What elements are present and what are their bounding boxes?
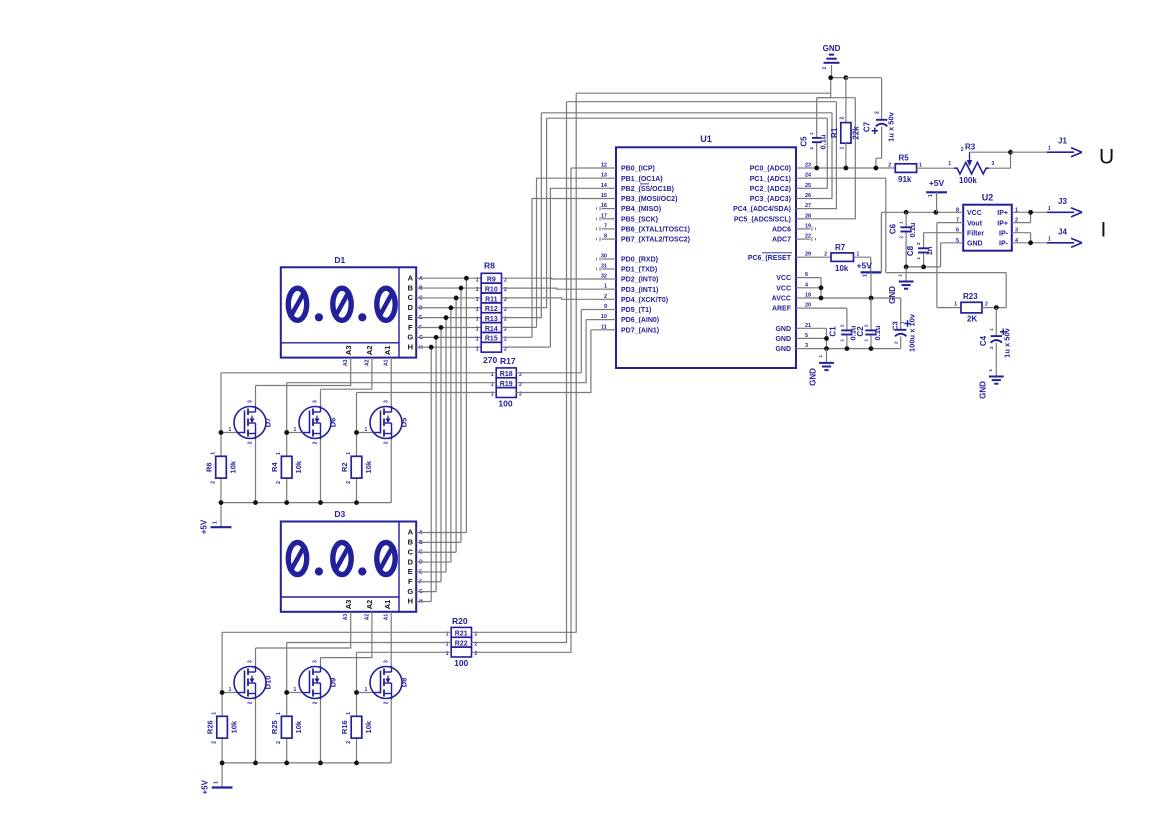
bus wires display columns A-H <box>465 278 467 532</box>
wire rowH to PB2 <box>502 188 609 347</box>
junction dot R23/C4 <box>994 305 999 310</box>
wire R21 to D10 gate <box>222 632 451 692</box>
svg-text:PD0_(RXD): PD0_(RXD) <box>621 257 658 264</box>
potentiometer R3 100k <box>954 162 989 174</box>
junction dots mini rail <box>904 265 909 270</box>
svg-text:R21: R21 <box>455 631 468 638</box>
svg-text:2: 2 <box>346 481 352 484</box>
wire D7 gate lead <box>221 432 238 434</box>
svg-text:1: 1 <box>1048 146 1051 152</box>
resistor R25 10k <box>281 716 292 738</box>
svg-text:A2: A2 <box>364 614 370 621</box>
wire to C7 <box>846 78 882 119</box>
wire R20-3 to D8 gate <box>357 652 452 692</box>
svg-text:R9: R9 <box>487 277 496 284</box>
svg-text:C4: C4 <box>979 335 988 346</box>
wire U2 IP+ pin1 <box>1012 211 1047 213</box>
svg-text:AREF: AREF <box>772 306 792 313</box>
svg-text:B: B <box>408 283 414 292</box>
svg-text:GND: GND <box>775 346 791 353</box>
svg-text:VCC: VCC <box>776 285 791 292</box>
svg-text:3: 3 <box>248 400 254 403</box>
svg-text:3: 3 <box>248 660 254 663</box>
svg-text:ADC7: ADC7 <box>772 237 791 244</box>
wire rowB to PD3 <box>502 288 609 289</box>
svg-text:G: G <box>407 587 413 596</box>
wire R17-3 to D5 gate <box>357 393 497 433</box>
svg-text:1: 1 <box>948 161 951 167</box>
svg-text:2: 2 <box>313 701 319 704</box>
wire GND stem <box>831 65 833 78</box>
svg-text:B: B <box>408 538 414 547</box>
display D3 (0.0.0 seven-segment) <box>281 522 416 612</box>
svg-text:R10: R10 <box>485 286 498 293</box>
wire R16 column <box>356 693 358 763</box>
wire GND mini rail <box>906 266 941 268</box>
wire +5V to U2 <box>936 192 938 212</box>
svg-text:A3: A3 <box>343 614 349 621</box>
wire R3 wiper to J1 <box>970 151 1011 153</box>
wire +5V stem <box>220 503 222 528</box>
wires D3 segment rows A-H <box>416 532 466 534</box>
svg-text:R16: R16 <box>340 720 349 734</box>
junction dots U2 VCC row <box>904 210 909 215</box>
resistor network R17 (R18,R19, 100) <box>496 368 516 378</box>
svg-text:R23: R23 <box>963 292 978 301</box>
wire D6 drain <box>320 439 322 503</box>
svg-text:PB3_(MOSI/OC2): PB3_(MOSI/OC2) <box>621 196 677 203</box>
svg-text:1: 1 <box>476 297 479 303</box>
svg-text:J1: J1 <box>1058 137 1067 146</box>
svg-text:1: 1 <box>476 287 479 293</box>
svg-text:PB2_(SS/OC1B): PB2_(SS/OC1B) <box>621 186 674 193</box>
wire +5V to AVCC rail <box>870 272 872 298</box>
junction dots GND row <box>828 75 833 80</box>
svg-text:1: 1 <box>476 277 479 283</box>
wire GND drop <box>830 78 832 98</box>
svg-text:2: 2 <box>961 147 964 153</box>
wire PD6 to R19 <box>516 320 608 383</box>
wire GND pins rail <box>804 328 901 348</box>
svg-text:1: 1 <box>928 194 934 197</box>
svg-text:VCC: VCC <box>967 210 982 217</box>
wire C2 top <box>870 298 872 330</box>
svg-text:PC3_(ADC3): PC3_(ADC3) <box>750 196 791 203</box>
svg-text:3: 3 <box>992 161 995 167</box>
svg-text:1: 1 <box>276 452 282 455</box>
svg-text:10k: 10k <box>294 460 303 473</box>
wire GND stem U2 <box>905 267 907 281</box>
connector J1 <box>1047 151 1074 153</box>
svg-text:10k: 10k <box>294 720 303 733</box>
svg-text:IP+: IP+ <box>997 220 1008 227</box>
wire GND stem U1 <box>826 349 828 363</box>
svg-text:R2: R2 <box>340 462 349 472</box>
svg-text:1: 1 <box>211 452 217 455</box>
svg-text:C3: C3 <box>890 321 899 331</box>
svg-text:F: F <box>408 323 413 332</box>
wire PC4 top bus <box>567 102 837 209</box>
wire GND row <box>831 77 846 79</box>
svg-text:R5: R5 <box>899 154 910 163</box>
wire R22 to D9 gate <box>287 643 452 693</box>
wire to C5 <box>817 98 831 138</box>
transistor D10 <box>234 667 266 699</box>
svg-text:1: 1 <box>863 274 869 277</box>
svg-text:1: 1 <box>276 712 282 715</box>
wire R1 bottom <box>845 143 847 168</box>
wire A3 to D7 <box>256 358 351 407</box>
resistor network R8 (R9-R15, 270) <box>481 273 501 283</box>
U1 pin stubs <box>608 167 616 169</box>
svg-text:1: 1 <box>840 147 846 150</box>
svg-text:PD2_(INT0): PD2_(INT0) <box>621 277 658 284</box>
wire A2 to D6 <box>321 358 372 407</box>
transistor D9 <box>299 667 331 699</box>
connector J4 <box>1047 242 1074 244</box>
wire C6 top <box>905 212 907 226</box>
svg-text:1u x 50v: 1u x 50v <box>887 111 896 141</box>
svg-text:D: D <box>408 557 414 566</box>
svg-text:2: 2 <box>985 302 988 308</box>
svg-text:R4: R4 <box>270 462 279 472</box>
junction dots D1 rows <box>464 276 469 281</box>
svg-text:100: 100 <box>498 399 512 409</box>
svg-text:PD5_(T1): PD5_(T1) <box>621 307 651 314</box>
junction dots VCC rail <box>819 285 824 290</box>
wire U2 IP- pin3 <box>1012 233 1031 243</box>
svg-text:IP+: IP+ <box>997 210 1008 217</box>
wire D7 drain <box>255 439 257 503</box>
svg-text:1: 1 <box>346 712 352 715</box>
junction dots PC0 net <box>814 166 819 171</box>
svg-text:1: 1 <box>1048 236 1051 242</box>
wire VCC pin6 <box>804 278 821 298</box>
wire rowE riser <box>502 113 542 318</box>
svg-text:1n: 1n <box>925 246 934 255</box>
wire PD5 to R18 <box>516 310 608 373</box>
transistor D6 <box>299 407 331 439</box>
svg-text:Filter: Filter <box>967 231 984 238</box>
svg-text:3: 3 <box>384 400 390 403</box>
capacitor C1 0.1u <box>841 329 852 331</box>
wire R5 to R3 <box>917 167 955 169</box>
wire Filter row <box>924 233 964 248</box>
wire R26 column <box>221 693 223 763</box>
svg-text:2: 2 <box>874 111 880 114</box>
svg-text:1: 1 <box>822 67 828 70</box>
junction dot J1 net <box>1008 150 1013 155</box>
wire PC3 top bus rowE <box>541 113 832 199</box>
wire D8 gate lead <box>357 692 374 694</box>
svg-text:1: 1 <box>365 427 368 433</box>
svg-text:A3: A3 <box>343 359 349 366</box>
svg-text:C7: C7 <box>863 121 872 132</box>
wire rowF to PB1 <box>502 178 609 327</box>
svg-text:C1: C1 <box>829 326 838 337</box>
svg-text:R20: R20 <box>452 616 468 626</box>
wire rowC to PD4 <box>502 298 609 299</box>
+5V supply top-left <box>211 526 232 528</box>
svg-text:PB6_(XTAL1/TOSC1): PB6_(XTAL1/TOSC1) <box>621 227 690 234</box>
svg-text:R7: R7 <box>835 243 846 252</box>
junction dots rail top <box>219 500 224 505</box>
svg-text:R15: R15 <box>485 336 498 343</box>
svg-text:2: 2 <box>824 252 827 258</box>
svg-text:AVCC: AVCC <box>772 296 791 303</box>
junction dots gates bottom <box>220 690 225 695</box>
capacitor C3 100u x 10v <box>895 329 906 331</box>
wire PC6 to R7 <box>804 256 831 258</box>
svg-text:R3: R3 <box>965 143 976 152</box>
wires D1 segment rows A-H <box>416 277 481 279</box>
wire R18 to D7 gate <box>221 373 496 433</box>
svg-text:D3: D3 <box>334 509 345 519</box>
svg-text:A3: A3 <box>344 346 353 356</box>
svg-text:R14: R14 <box>485 326 498 333</box>
capacitor C7 1u x 50v <box>876 119 887 121</box>
svg-text:1: 1 <box>213 521 219 524</box>
svg-text:J3: J3 <box>1058 197 1067 206</box>
svg-text:PC1_(ADC1): PC1_(ADC1) <box>750 176 791 183</box>
svg-text:R11: R11 <box>485 296 498 303</box>
svg-text:R12: R12 <box>485 306 498 313</box>
svg-text:3: 3 <box>384 660 390 663</box>
wire D9 drain <box>320 699 322 763</box>
svg-text:A1: A1 <box>384 359 390 366</box>
svg-text:A2: A2 <box>364 359 370 366</box>
svg-text:PC6_(RESET: PC6_(RESET <box>748 255 792 262</box>
svg-text:1: 1 <box>365 687 368 693</box>
wire AREF to C1 <box>804 308 847 330</box>
junction dot J4 <box>1028 240 1033 245</box>
svg-text:3: 3 <box>313 660 319 663</box>
wire R3 pin3 up <box>989 152 1011 168</box>
wire pin28 riser <box>804 98 855 219</box>
svg-text:1: 1 <box>476 327 479 333</box>
svg-text:IP-: IP- <box>999 241 1009 248</box>
wire PC5 top bus <box>576 92 831 94</box>
wire C8 bottom <box>923 253 925 267</box>
svg-text:R8: R8 <box>484 261 495 271</box>
wire PC1 net <box>804 178 1006 307</box>
svg-text:PC5_(ADC5/SCL): PC5_(ADC5/SCL) <box>734 216 791 223</box>
wire A1 to D8 <box>390 612 392 667</box>
svg-text:C5: C5 <box>800 136 809 147</box>
svg-text:E: E <box>408 567 413 576</box>
resistor R1 22k <box>841 123 851 144</box>
wire C3 bottom <box>900 337 902 349</box>
transistor D5 <box>370 407 402 439</box>
svg-text:2: 2 <box>888 163 891 169</box>
svg-text:PB1_(OC1A): PB1_(OC1A) <box>621 176 663 183</box>
svg-text:R22: R22 <box>455 641 468 648</box>
wire PD7 to R17 third <box>516 330 608 393</box>
wire C7 bottom <box>876 127 882 169</box>
resistor R23 2K <box>961 302 982 313</box>
svg-text:270: 270 <box>483 355 497 365</box>
svg-text:10k: 10k <box>364 720 373 733</box>
wire VCC row U2 <box>881 211 963 213</box>
svg-text:10k: 10k <box>364 460 373 473</box>
junction dot J3 <box>1028 210 1033 215</box>
svg-text:10k: 10k <box>230 720 239 733</box>
svg-text:+5V: +5V <box>201 779 210 794</box>
svg-text:2: 2 <box>211 481 217 484</box>
svg-text:H: H <box>408 342 413 351</box>
svg-text:1: 1 <box>954 302 957 308</box>
svg-text:1: 1 <box>1048 206 1051 212</box>
svg-text:1: 1 <box>476 307 479 313</box>
svg-text:2: 2 <box>248 701 254 704</box>
resistor R5 91k <box>895 164 916 173</box>
svg-text:PD3_(INT1): PD3_(INT1) <box>621 287 658 294</box>
svg-text:R17: R17 <box>500 356 516 366</box>
svg-text:91k: 91k <box>898 175 912 184</box>
svg-text:1: 1 <box>476 317 479 323</box>
svg-text:PB7_(XTAL2/TOSC2): PB7_(XTAL2/TOSC2) <box>621 237 690 244</box>
capacitor C4 1u x 50v <box>991 335 1002 337</box>
svg-text:PC2_(ADC2): PC2_(ADC2) <box>750 186 791 193</box>
svg-text:1: 1 <box>346 452 352 455</box>
svg-text:1: 1 <box>294 687 297 693</box>
wire R2 column <box>356 433 358 503</box>
svg-text:2: 2 <box>212 741 218 744</box>
svg-text:PB4_(MISO): PB4_(MISO) <box>621 206 661 213</box>
svg-text:0.1u: 0.1u <box>873 325 882 340</box>
wire R7 to +5V <box>854 257 871 271</box>
capacitor C6 0.1u <box>900 226 911 228</box>
svg-text:U: U <box>1099 146 1114 169</box>
svg-text:100u x 10v: 100u x 10v <box>908 313 917 352</box>
resistor network R20 (R21,R22, 100) <box>451 627 471 637</box>
wire rowA to PD2 <box>502 277 609 280</box>
svg-text:PD1_(TXD): PD1_(TXD) <box>621 267 657 274</box>
svg-text:10k: 10k <box>229 460 238 473</box>
svg-text:2K: 2K <box>967 315 977 324</box>
wire C4 top <box>995 308 997 336</box>
svg-text:ADC6: ADC6 <box>772 227 791 234</box>
svg-text:PB0_(ICP): PB0_(ICP) <box>621 166 655 173</box>
capacitor C8 1n <box>918 247 929 249</box>
svg-text:PC4_(ADC4/SDA): PC4_(ADC4/SDA) <box>733 206 791 213</box>
capacitor C2 0.1u <box>865 329 876 331</box>
display D1 (0.0.0 seven-segment) <box>281 267 416 357</box>
svg-text:1: 1 <box>476 346 479 352</box>
svg-text:U2: U2 <box>982 193 994 203</box>
wire rowD riser <box>502 118 547 308</box>
transistor D7 <box>234 407 266 439</box>
wire R21 feeder <box>472 93 577 632</box>
svg-text:R18: R18 <box>500 371 513 378</box>
svg-text:U1: U1 <box>700 134 712 144</box>
wire C4 bottom <box>995 343 997 376</box>
svg-text:GND: GND <box>979 381 988 399</box>
svg-text:GND: GND <box>775 336 791 343</box>
svg-text:2: 2 <box>840 117 846 120</box>
resistor R4 10k <box>281 456 292 478</box>
resistor R6 10k <box>216 456 227 478</box>
svg-text:I: I <box>1101 219 1107 242</box>
svg-text:10k: 10k <box>835 264 849 273</box>
svg-text:D10: D10 <box>264 676 273 690</box>
svg-text:R19: R19 <box>500 381 513 388</box>
wire R1 top <box>845 78 847 123</box>
svg-text:2: 2 <box>346 741 352 744</box>
wire D10 gate lead <box>222 692 237 694</box>
svg-text:A2: A2 <box>365 600 374 610</box>
svg-text:GND: GND <box>775 326 791 333</box>
wire C5 bottom <box>816 143 818 168</box>
svg-text:C8: C8 <box>906 245 915 256</box>
wire D9 gate lead <box>287 692 303 694</box>
wire C1 bottom <box>846 335 848 348</box>
svg-text:100: 100 <box>454 658 468 668</box>
GND symbol under U2 <box>899 281 914 283</box>
svg-text:1: 1 <box>476 336 479 342</box>
wire R4 column <box>286 433 288 503</box>
svg-text:D5: D5 <box>400 418 409 428</box>
svg-text:1: 1 <box>212 712 218 715</box>
svg-text:2: 2 <box>384 441 390 444</box>
wire R23 pin1 <box>937 307 961 309</box>
IC U1 microcontroller <box>616 147 796 368</box>
svg-text:R13: R13 <box>485 316 498 323</box>
svg-text:1u x 50v: 1u x 50v <box>1003 327 1012 357</box>
junction dots rail bottom <box>220 761 225 766</box>
svg-text:G: G <box>407 333 413 342</box>
wire C3 top <box>900 298 902 329</box>
junction dots gates top <box>219 430 224 435</box>
GND symbol under C4 <box>989 376 1004 378</box>
wire rowG to PB3 <box>502 199 609 338</box>
wire U2 IP+ pin2 <box>1012 212 1031 222</box>
svg-text:D6: D6 <box>329 418 338 428</box>
svg-text:Vout: Vout <box>967 220 983 227</box>
wire A2 to D9 <box>321 612 372 667</box>
connector J3 <box>1047 211 1074 213</box>
capacitor C5 0.1u <box>812 137 822 139</box>
wire VCC drop to +5V bar <box>880 212 882 271</box>
svg-text:VCC: VCC <box>776 275 791 282</box>
resistor R7 10k <box>831 253 854 262</box>
svg-text:PB5_(SCK): PB5_(SCK) <box>621 216 658 223</box>
svg-text:3: 3 <box>313 400 319 403</box>
wire C2 bottom <box>870 335 872 348</box>
svg-text:22k: 22k <box>852 126 861 140</box>
svg-text:0.1u: 0.1u <box>908 222 917 237</box>
svg-text:2: 2 <box>384 701 390 704</box>
svg-text:R1: R1 <box>830 127 839 138</box>
wire +5V rail bottom section <box>222 762 391 764</box>
svg-text:A3: A3 <box>344 600 353 610</box>
svg-text:GND: GND <box>823 44 841 53</box>
svg-text:+5V: +5V <box>857 261 873 271</box>
svg-text:R26: R26 <box>206 720 215 734</box>
wire U2 GND row <box>941 243 964 267</box>
svg-text:2: 2 <box>276 481 282 484</box>
svg-text:D8: D8 <box>400 678 409 688</box>
svg-text:H: H <box>408 597 413 606</box>
wire A1 to D5 <box>390 358 392 407</box>
resistor R2 10k <box>351 456 362 478</box>
wire +5V stem bottom <box>221 763 223 788</box>
svg-text:PC0_(ADC0): PC0_(ADC0) <box>750 166 791 173</box>
svg-text:IP-: IP- <box>999 231 1009 238</box>
svg-text:+5V: +5V <box>929 178 945 188</box>
svg-text:R25: R25 <box>270 720 279 734</box>
wire bar y97.7 <box>817 97 856 99</box>
